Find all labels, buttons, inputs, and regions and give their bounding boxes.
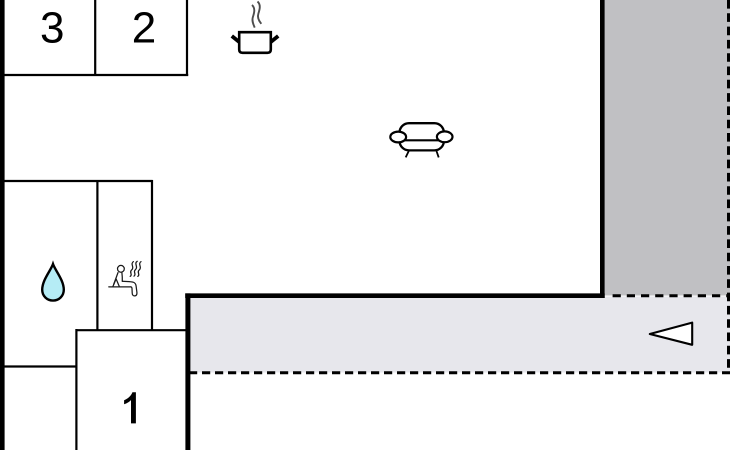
svg-text:3: 3 <box>40 3 64 52</box>
svg-text:2: 2 <box>132 3 156 52</box>
